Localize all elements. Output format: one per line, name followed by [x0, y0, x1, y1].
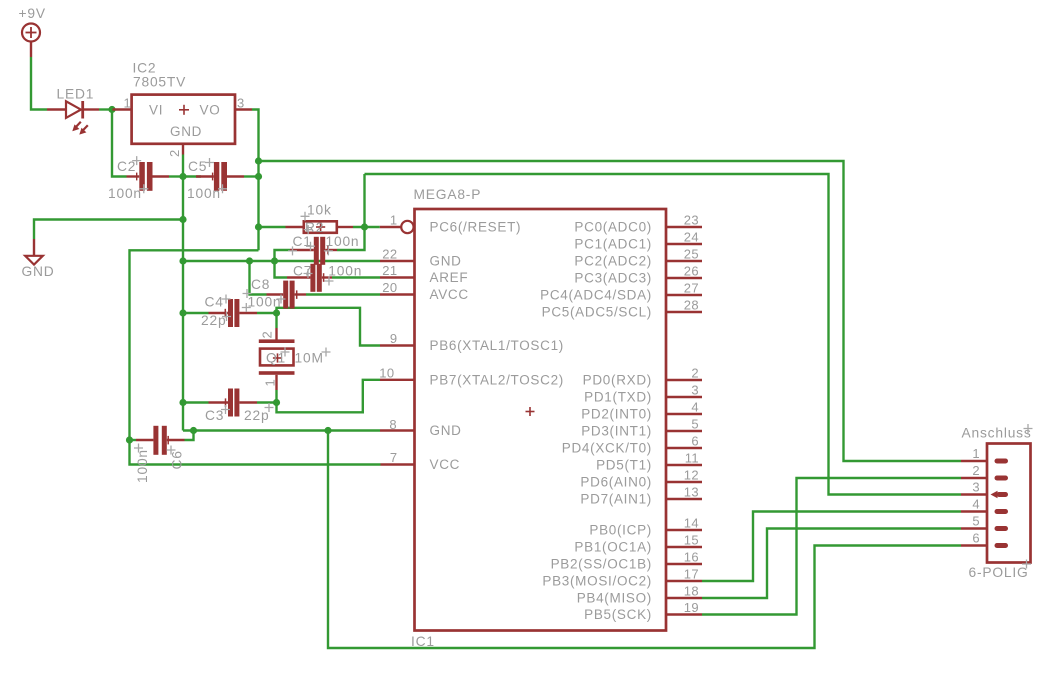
- svg-text:GND: GND: [430, 423, 462, 438]
- wire XTAL1 node to pin9: [277, 308, 381, 346]
- wire crystal pin1 to node: [275, 390, 277, 403]
- svg-text:1: 1: [263, 379, 278, 387]
- wire RESET vertical R2/pin1/C1: [337, 174, 365, 250]
- pin 20 AVCC stub: [380, 293, 415, 295]
- origin cross C5 name: [205, 158, 214, 167]
- origin cross Q1 name: [281, 348, 290, 357]
- LED LED1: [47, 101, 99, 135]
- svg-text:3: 3: [691, 383, 699, 398]
- svg-text:PB7(XTAL2/TOSC2): PB7(XTAL2/TOSC2): [430, 372, 565, 387]
- svg-text:4: 4: [691, 400, 699, 415]
- svg-text:C8: C8: [251, 277, 270, 292]
- pin 23 stub: [666, 226, 702, 228]
- node GND row C8: [246, 257, 253, 264]
- wire R2 left from +5V vertical: [259, 226, 286, 228]
- wire +9V vertical to LED row: [31, 57, 47, 110]
- pin 7 VCC stub: [381, 463, 415, 465]
- wire LED cathode to VI junction: [99, 108, 112, 110]
- pin 11 stub: [666, 464, 702, 466]
- origin cross C1 value: [324, 246, 333, 255]
- origin cross C1 name: [306, 242, 315, 251]
- svg-text:100n: 100n: [187, 186, 221, 201]
- wire R2 right to pin1: [353, 226, 380, 228]
- capacitor C7: [287, 264, 332, 292]
- wire C4 left: [183, 312, 209, 314]
- wire C1 left down to GND row: [275, 250, 291, 278]
- connector Anschluss 6-POLIG: [961, 444, 1031, 563]
- wire RESET rail to connector pin 3: [365, 174, 962, 495]
- pin 25 stub: [666, 260, 702, 262]
- svg-text:17: 17: [684, 567, 699, 582]
- svg-text:PD7(AIN1): PD7(AIN1): [580, 492, 652, 507]
- svg-text:16: 16: [684, 550, 699, 565]
- origin cross C2 name: [132, 156, 141, 165]
- svg-text:PD6(AIN0): PD6(AIN0): [580, 475, 652, 490]
- svg-text:PD5(T1): PD5(T1): [596, 458, 652, 473]
- origin cross C5 value: [218, 184, 227, 193]
- svg-text:24: 24: [684, 230, 699, 245]
- wire +5V row left to VCC vertical: [130, 250, 381, 464]
- node XTAL2/C3: [273, 399, 280, 406]
- pin 19 stub: [666, 613, 702, 615]
- svg-text:C4: C4: [205, 295, 224, 310]
- svg-text:PB2(SS/OC1B): PB2(SS/OC1B): [551, 557, 652, 572]
- capacitor C3: [209, 389, 258, 417]
- node +5V rail tap: [255, 157, 262, 164]
- svg-text:PB6(XTAL1/TOSC1): PB6(XTAL1/TOSC1): [430, 338, 565, 353]
- wire C8 right to pin20: [306, 293, 380, 295]
- svg-text:GND: GND: [22, 264, 55, 279]
- svg-text:+9V: +9V: [19, 6, 46, 21]
- pin 12 stub: [666, 481, 702, 483]
- svg-text:100n: 100n: [108, 186, 142, 201]
- svg-text:22p: 22p: [244, 408, 269, 423]
- svg-text:100n: 100n: [248, 295, 282, 310]
- IC MEGA8-P body IC1: [415, 209, 667, 631]
- svg-text:3: 3: [972, 480, 980, 495]
- wire C3 left: [183, 401, 209, 403]
- node XTAL1/C4: [273, 309, 280, 316]
- junction dots: [108, 106, 368, 444]
- svg-text:PB1(OC1A): PB1(OC1A): [574, 540, 652, 555]
- wire C2 right to GND vertical: [169, 175, 183, 177]
- svg-text:PD2(INT0): PD2(INT0): [581, 407, 652, 422]
- svg-text:PC4(ADC4/SDA): PC4(ADC4/SDA): [540, 288, 652, 303]
- svg-text:5: 5: [972, 514, 980, 529]
- svg-text:PD4(XCK/T0): PD4(XCK/T0): [562, 441, 652, 456]
- capacitor C8: [267, 281, 307, 309]
- svg-text:10: 10: [379, 365, 394, 380]
- pin 8 GND stub: [380, 429, 415, 431]
- svg-text:10M: 10M: [295, 351, 324, 366]
- wire bottom GND rail to connector pin 6: [328, 431, 961, 649]
- node RESET/R2/pin1: [361, 223, 368, 230]
- regulator IC2 7805TV: [113, 95, 253, 155]
- wire C3 right to XTAL2 node: [257, 401, 277, 403]
- origin cross C1 pin: [288, 246, 297, 255]
- pin 22 GND stub: [380, 260, 415, 262]
- pin 13 stub: [666, 498, 702, 500]
- svg-text:22: 22: [382, 247, 397, 262]
- wire C8 left up to GND row: [250, 261, 267, 295]
- wire GND stub row: [34, 220, 183, 240]
- wire SCK pin19 to connector pin 2: [702, 478, 961, 615]
- origin cross C6 value: [134, 444, 143, 453]
- svg-text:15: 15: [684, 533, 699, 548]
- svg-text:PB3(MOSI/OC2): PB3(MOSI/OC2): [542, 574, 652, 589]
- wire C5 left: [183, 175, 201, 177]
- pin 28 stub: [666, 311, 702, 313]
- origin cross C3 name: [221, 405, 230, 414]
- pin 14 stub: [666, 529, 702, 531]
- capacitor C2: [127, 162, 170, 191]
- svg-text:1: 1: [390, 213, 398, 228]
- svg-text:IC2: IC2: [133, 61, 157, 76]
- origin cross C4 symbol: [242, 303, 251, 312]
- node GND/C4: [179, 309, 186, 316]
- svg-text:4: 4: [972, 497, 980, 512]
- svg-text:3: 3: [237, 96, 245, 111]
- wire +5V rail to connector pin 1: [259, 161, 962, 461]
- svg-text:PC3(ADC3): PC3(ADC3): [574, 271, 652, 286]
- pin 26 stub: [666, 277, 702, 279]
- origin cross C7 name: [304, 269, 313, 278]
- origin cross C7 value: [325, 277, 334, 286]
- origin cross 6-POLIG: [1022, 560, 1031, 569]
- svg-text:GND: GND: [170, 124, 202, 139]
- pin 3 stub: [666, 396, 702, 398]
- svg-text:7805TV: 7805TV: [133, 75, 186, 90]
- svg-text:PB5(SCK): PB5(SCK): [584, 607, 652, 622]
- svg-text:PC1(ADC1): PC1(ADC1): [574, 237, 652, 252]
- svg-text:14: 14: [684, 516, 699, 531]
- svg-text:PD0(RXD): PD0(RXD): [583, 373, 652, 388]
- svg-text:MEGA8-P: MEGA8-P: [414, 187, 482, 202]
- svg-text:PB0(ICP): PB0(ICP): [589, 523, 652, 538]
- capacitor C1: [290, 237, 337, 265]
- svg-text:Q1: Q1: [266, 351, 286, 366]
- pin 5 stub: [666, 430, 702, 432]
- origin cross R2 below: [304, 225, 313, 234]
- svg-text:2: 2: [972, 463, 980, 478]
- supply +9V symbol: [22, 24, 40, 58]
- svg-text:AREF: AREF: [430, 270, 469, 285]
- wire C5 right to +5V vertical: [244, 175, 259, 177]
- capacitor C6: [136, 426, 185, 455]
- svg-text:6-POLIG: 6-POLIG: [969, 565, 1029, 580]
- svg-text:AVCC: AVCC: [430, 287, 469, 302]
- origin cross C8 name: [243, 289, 252, 298]
- crystal Q1: [259, 328, 295, 390]
- svg-text:9: 9: [390, 331, 398, 346]
- wire C7 right to pin21: [332, 276, 380, 278]
- svg-text:2: 2: [691, 366, 699, 381]
- svg-text:C5: C5: [188, 159, 207, 174]
- node GND row/C6: [190, 427, 197, 434]
- capacitor C4: [209, 299, 258, 327]
- node +5V/C5: [255, 173, 262, 180]
- svg-text:13: 13: [684, 485, 699, 500]
- svg-text:100n: 100n: [326, 234, 360, 249]
- origin cross C2 value: [139, 184, 148, 193]
- svg-text:22p: 22p: [201, 313, 226, 328]
- origin cross Anschluss: [1024, 424, 1033, 433]
- svg-text:10k: 10k: [307, 203, 332, 218]
- svg-text:PD1(TXD): PD1(TXD): [584, 390, 652, 405]
- origin cross C3 value: [265, 403, 274, 412]
- pin 4 stub: [666, 413, 702, 415]
- svg-text:PC2(ADC2): PC2(ADC2): [574, 254, 652, 269]
- node GND row left: [179, 257, 186, 264]
- wire C6 right jog up to GND row: [185, 431, 194, 441]
- origin cross C4 name: [222, 295, 231, 304]
- node GND/C3: [179, 399, 186, 406]
- wire MISO pin18 to connector pin 5: [702, 529, 961, 599]
- svg-text:7: 7: [390, 450, 398, 465]
- svg-text:19: 19: [684, 600, 699, 615]
- wire 7805 VO pin to +5V vertical down to +5V row: [252, 110, 259, 251]
- wire C6 left stub: [130, 439, 137, 441]
- svg-text:1: 1: [972, 446, 980, 461]
- pin 6 stub: [666, 447, 702, 449]
- svg-text:8: 8: [389, 417, 397, 432]
- svg-text:23: 23: [684, 213, 699, 228]
- node GND stub: [179, 216, 186, 223]
- node GND row C1C7: [271, 257, 278, 264]
- svg-text:12: 12: [684, 468, 699, 483]
- svg-text:C3: C3: [205, 408, 224, 423]
- svg-text:21: 21: [382, 263, 397, 278]
- svg-text:11: 11: [685, 451, 699, 466]
- svg-text:C6: C6: [170, 450, 185, 469]
- origin cross Q1 value: [322, 348, 331, 357]
- svg-text:PC6(/RESET): PC6(/RESET): [430, 220, 522, 235]
- svg-text:Anschluss: Anschluss: [962, 426, 1032, 441]
- svg-text:27: 27: [684, 281, 699, 296]
- wire XTAL2 node to pin10: [277, 380, 381, 413]
- svg-text:C7: C7: [293, 264, 312, 279]
- node +5V/R2: [255, 223, 262, 230]
- wire C4 right to XTAL1 node: [257, 312, 277, 314]
- ground symbol GND: [25, 239, 43, 265]
- pin 15 stub: [666, 546, 702, 548]
- pin 1 PC6/RESET with inversion circle: [380, 221, 414, 233]
- svg-text:100n: 100n: [328, 264, 362, 279]
- node GND row/bottom rail: [324, 427, 331, 434]
- svg-text:PD3(INT1): PD3(INT1): [581, 424, 652, 439]
- svg-text:PC5(ADC5/SCL): PC5(ADC5/SCL): [542, 305, 652, 320]
- svg-text:PC0(ADC0): PC0(ADC0): [574, 220, 652, 235]
- wire GND row pin22: [183, 260, 380, 262]
- svg-text:VO: VO: [200, 103, 221, 118]
- node VCC/C6: [126, 436, 133, 443]
- svg-text:LED1: LED1: [57, 87, 95, 102]
- svg-text:6: 6: [972, 531, 980, 546]
- pin 21 AREF stub: [380, 276, 415, 278]
- svg-text:20: 20: [382, 280, 397, 295]
- pin 27 stub: [666, 294, 702, 296]
- node LED/VI junction: [108, 106, 115, 113]
- origin cross C8 value: [277, 295, 286, 304]
- svg-text:GND: GND: [430, 254, 462, 269]
- svg-text:25: 25: [684, 247, 699, 262]
- wire MOSI pin17 to connector pin 4: [702, 512, 961, 582]
- svg-text:1: 1: [124, 96, 132, 111]
- svg-text:5: 5: [691, 417, 699, 432]
- capacitor C5: [196, 162, 244, 191]
- svg-text:PB4(MISO): PB4(MISO): [577, 591, 652, 606]
- svg-text:VCC: VCC: [430, 457, 461, 472]
- svg-text:2: 2: [260, 331, 275, 339]
- pin 16 stub: [666, 563, 702, 565]
- pin 17 stub: [666, 580, 702, 582]
- origin cross R2 name: [301, 212, 310, 221]
- svg-text:6: 6: [691, 434, 699, 449]
- pin 9 PB6 stub: [380, 344, 415, 346]
- resistor R2: [286, 221, 354, 233]
- pin 10 PB7 stub: [380, 379, 415, 381]
- node GND/C2C5: [179, 173, 186, 180]
- pin 2 stub: [666, 379, 702, 381]
- wire VI junction down to C2: [112, 110, 127, 177]
- svg-text:18: 18: [684, 584, 699, 599]
- svg-text:2: 2: [167, 149, 182, 157]
- wire GND vertical from 7805 pin2 down to pin8 row corner: [182, 155, 184, 431]
- origin cross C6 name: [167, 446, 176, 455]
- svg-text:IC1: IC1: [411, 634, 435, 649]
- wire pin8 GND row: [183, 429, 380, 431]
- svg-text:26: 26: [684, 264, 699, 279]
- origin cross marks: [132, 156, 1032, 568]
- pin 24 stub: [666, 243, 702, 245]
- origin cross C4 value: [222, 312, 231, 321]
- svg-text:VI: VI: [149, 103, 163, 118]
- svg-text:100n: 100n: [135, 449, 150, 483]
- svg-text:28: 28: [684, 298, 699, 313]
- pin 18 stub: [666, 597, 702, 599]
